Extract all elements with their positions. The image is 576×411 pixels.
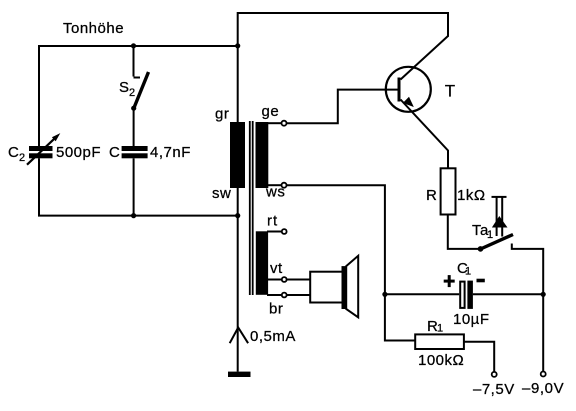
svg-text:–9,0V: –9,0V <box>522 380 564 397</box>
svg-text:C: C <box>109 144 120 161</box>
svg-text:sw: sw <box>212 185 231 202</box>
svg-text:ge: ge <box>262 103 280 120</box>
svg-text:ws: ws <box>265 183 285 200</box>
svg-text:C: C <box>8 144 19 161</box>
svg-text:br: br <box>269 301 283 318</box>
svg-text:2: 2 <box>19 152 26 164</box>
svg-text:R: R <box>426 187 437 204</box>
svg-text:1kΩ: 1kΩ <box>457 187 486 204</box>
svg-text:gr: gr <box>215 106 229 123</box>
svg-text:T: T <box>445 81 456 100</box>
svg-text:10µF: 10µF <box>453 311 490 328</box>
svg-text:vt: vt <box>270 260 283 277</box>
svg-text:S: S <box>119 79 130 96</box>
svg-text:rt: rt <box>267 212 278 229</box>
svg-text:4,7nF: 4,7nF <box>150 144 191 161</box>
svg-text:1: 1 <box>437 323 444 335</box>
svg-text:500pF: 500pF <box>56 144 101 161</box>
svg-text:100kΩ: 100kΩ <box>418 352 464 369</box>
svg-text:1: 1 <box>487 229 494 241</box>
svg-text:Tonhöhe: Tonhöhe <box>63 20 124 37</box>
svg-text:0,5mA: 0,5mA <box>250 328 296 345</box>
svg-text:–7,5V: –7,5V <box>473 381 515 398</box>
svg-text:2: 2 <box>129 87 136 99</box>
svg-text:1: 1 <box>465 266 472 278</box>
